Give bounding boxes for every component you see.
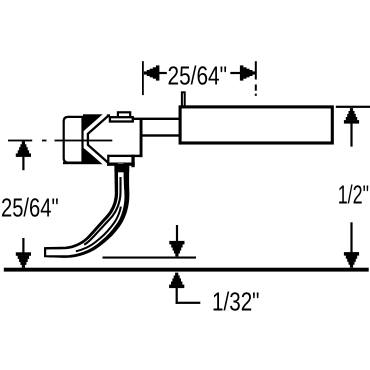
svg-text:25/64": 25/64" bbox=[168, 60, 228, 90]
svg-text:1/2": 1/2" bbox=[338, 180, 369, 210]
svg-text:25/64": 25/64" bbox=[1, 192, 59, 222]
svg-text:1/32": 1/32" bbox=[212, 287, 260, 317]
